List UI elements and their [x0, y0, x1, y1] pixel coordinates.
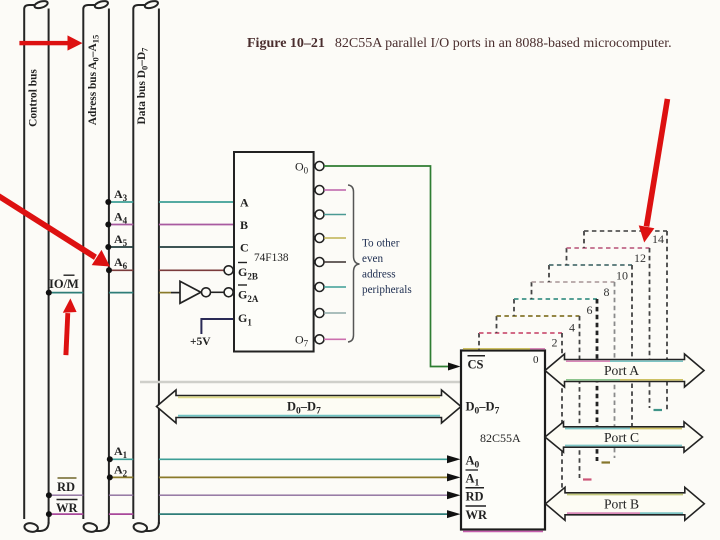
svg-text:6: 6: [587, 303, 593, 317]
red arrow at IO/M: [63, 298, 77, 355]
svg-text:74F138: 74F138: [254, 252, 289, 264]
svg-text:peripherals: peripherals: [362, 284, 412, 296]
svg-text:Port A: Port A: [604, 363, 639, 378]
wire A3 to 74F138 A: [108, 201, 234, 203]
port B bus arrow: [546, 487, 705, 520]
faint scan band: [140, 381, 468, 383]
node A4: [105, 222, 111, 228]
svg-text:Control bus: Control bus: [28, 69, 40, 127]
wire O1: [324, 189, 346, 191]
wire A4 to 74F138 B: [108, 224, 234, 226]
dashed cable 2: [479, 333, 562, 492]
control bus: [24, 0, 49, 533]
node RD: [46, 492, 52, 498]
node A5: [105, 244, 111, 250]
wire A6 to 74F138 G2B: [109, 269, 224, 271]
node A6: [106, 267, 112, 273]
wire O4: [324, 261, 346, 263]
node WR: [46, 511, 52, 517]
svg-text:Figure 10–2182C55A parallel I/: Figure 10–2182C55A parallel I/O ports in…: [247, 36, 672, 51]
svg-text:Port B: Port B: [604, 497, 639, 512]
svg-text:Adress bus A0–A15: Adress bus A0–A15: [87, 35, 101, 125]
wire O5: [324, 286, 346, 288]
port A bus arrow: [545, 354, 704, 387]
svg-text:4: 4: [569, 321, 575, 335]
dashed cable 4: [497, 316, 580, 478]
red arrow at cable 14: [639, 99, 671, 243]
+5V supply: [201, 319, 234, 334]
svg-text:RD: RD: [466, 490, 484, 504]
wire A2 to 82C55A A1: [110, 476, 450, 478]
svg-text:CS: CS: [468, 358, 484, 372]
svg-text:A: A: [240, 196, 249, 210]
red arrow to A6: [0, 194, 110, 267]
red arrow at address bus: [19, 35, 82, 50]
dashed cable 6: [514, 299, 597, 461]
wire RD: [49, 494, 449, 496]
svg-text:12: 12: [634, 251, 646, 265]
address bus: [83, 0, 109, 533]
svg-text:0: 0: [533, 354, 539, 366]
svg-text:C: C: [240, 241, 249, 255]
dashed cable 8: [532, 282, 615, 458]
dashed cable 12: [567, 248, 650, 408]
wire WR: [49, 513, 449, 515]
svg-text:+5V: +5V: [190, 336, 211, 348]
wire inverter to G2A: [211, 291, 225, 293]
dashed cable 10: [549, 265, 632, 427]
inverter: [180, 281, 201, 303]
wire O2: [324, 214, 346, 216]
brace: [348, 185, 360, 342]
data bus D0-D7 big arrow: [157, 390, 462, 423]
wire IO/M to inverter: [49, 292, 180, 294]
wire O7: [324, 338, 346, 340]
svg-text:Data bus D0–D7: Data bus D0–D7: [136, 47, 150, 125]
wire O0 to CS: [324, 166, 450, 367]
wire O6: [324, 312, 346, 314]
data bus: [133, 0, 159, 533]
svg-text:14: 14: [652, 232, 664, 246]
svg-text:8: 8: [604, 285, 610, 299]
svg-text:2: 2: [552, 336, 558, 350]
wire O3: [324, 237, 346, 239]
node A1: [107, 456, 113, 462]
svg-text:To other: To other: [362, 238, 400, 250]
svg-text:10: 10: [616, 269, 628, 283]
dashed cable 14: [584, 231, 667, 412]
wire A1 to 82C55A A0: [110, 458, 450, 460]
output bubbles O0-O7: [315, 162, 324, 344]
svg-text:even: even: [362, 253, 384, 265]
node A2: [107, 474, 113, 480]
node A3: [105, 199, 111, 205]
svg-text:RD: RD: [57, 480, 75, 494]
wire A5 to 74F138 C: [108, 246, 234, 248]
port C bus arrow: [545, 422, 703, 452]
svg-text:WR: WR: [56, 501, 79, 515]
svg-text:Port C: Port C: [604, 430, 639, 445]
svg-text:address: address: [362, 269, 396, 281]
decoder 74F138: [234, 152, 314, 352]
PPI 82C55A: [461, 351, 545, 530]
svg-text:B: B: [240, 218, 248, 232]
svg-text:82C55A: 82C55A: [480, 431, 521, 445]
node IO/M: [46, 290, 52, 296]
svg-text:IO/M: IO/M: [49, 277, 79, 291]
svg-text:WR: WR: [466, 508, 489, 522]
